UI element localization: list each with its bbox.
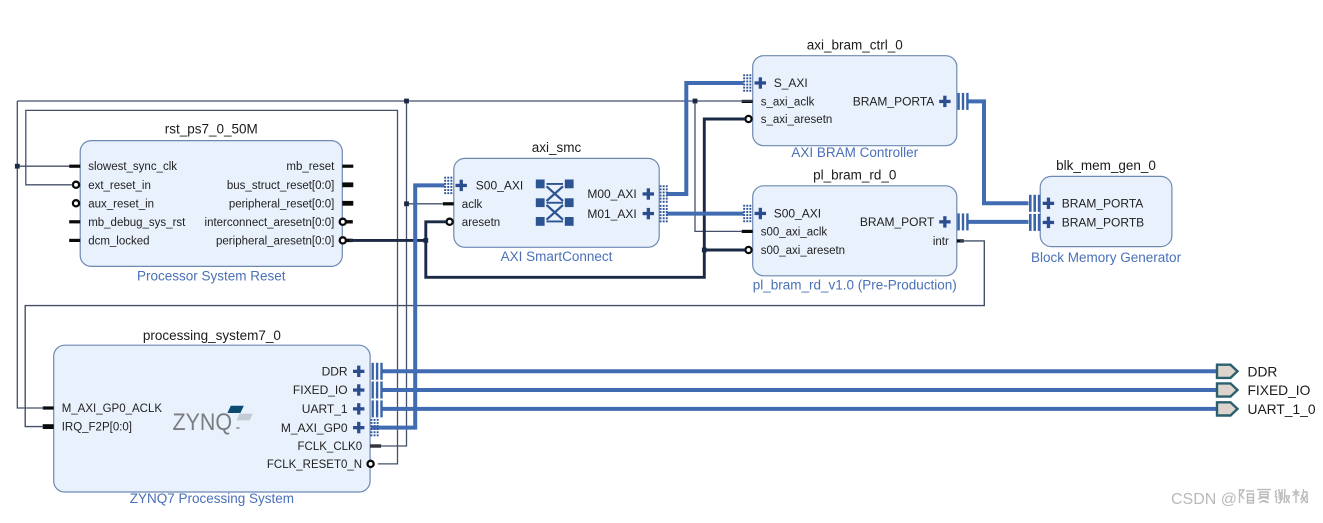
svg-text:AXI SmartConnect: AXI SmartConnect: [501, 249, 613, 264]
svg-text:rst_ps7_0_50M: rst_ps7_0_50M: [165, 122, 258, 137]
block pl_bram_rd_0 (pl_bram_rd_v1.0): [742, 168, 964, 293]
svg-text:peripheral_reset[0:0]: peripheral_reset[0:0]: [229, 198, 334, 210]
svg-text:ext_reset_in: ext_reset_in: [88, 180, 151, 192]
wire net FCLK_CLK0 (clock): [17, 101, 752, 446]
svg-text:s00_axi_aclk: s00_axi_aclk: [761, 226, 828, 238]
svg-text:aresetn: aresetn: [462, 217, 500, 229]
svg-text:BRAM_PORTB: BRAM_PORTB: [1062, 216, 1144, 230]
block rst_ps7_0_50M (Processor System Reset): [69, 122, 353, 284]
svg-text:mb_reset: mb_reset: [286, 161, 335, 173]
svg-text:s_axi_aresetn: s_axi_aresetn: [761, 114, 833, 126]
junction FCLK_CLK0 slowest_sync_clk branch: [15, 164, 20, 169]
svg-text:aux_reset_in: aux_reset_in: [88, 198, 154, 210]
svg-text:S_AXI: S_AXI: [774, 76, 808, 90]
external port FIXED_IO: [1217, 383, 1311, 398]
axi_smc crossbar switch icon: [536, 180, 574, 226]
svg-text:axi_smc: axi_smc: [532, 140, 582, 155]
connector M01_AXI dotted: [660, 205, 668, 222]
wire UART_1 to external port: [382, 407, 1217, 411]
junction FCLK_CLK0 aclk branch: [404, 201, 409, 206]
svg-text:intr: intr: [933, 236, 949, 248]
connector BRAM_PORT bars (pl_bram_rd): [957, 213, 968, 230]
wire BRAM_PORTA to blk_mem BRAM_PORTA: [969, 101, 1029, 203]
svg-text:M00_AXI: M00_AXI: [587, 187, 636, 201]
svg-text:axi_bram_ctrl_0: axi_bram_ctrl_0: [807, 38, 903, 53]
connector M_AXI_GP0 dotted (ps7): [371, 419, 379, 436]
svg-text:ZYNQ7 Processing System: ZYNQ7 Processing System: [130, 491, 294, 506]
svg-text:aclk: aclk: [462, 199, 483, 211]
wire net intr to IRQ_F2P: [25, 241, 984, 427]
svg-text:BRAM_PORT: BRAM_PORT: [860, 215, 935, 229]
svg-text:pl_bram_rd_v1.0 (Pre-Productio: pl_bram_rd_v1.0 (Pre-Production): [753, 278, 957, 293]
wire M00_AXI to S_AXI (AXI): [667, 83, 744, 194]
svg-text:AXI BRAM Controller: AXI BRAM Controller: [791, 145, 918, 160]
svg-text:UART_1_0: UART_1_0: [1248, 402, 1316, 417]
svg-text:FCLK_RESET0_N: FCLK_RESET0_N: [267, 459, 362, 471]
svg-text:blk_mem_gen_0: blk_mem_gen_0: [1056, 158, 1156, 173]
svg-text:mb_debug_sys_rst: mb_debug_sys_rst: [88, 217, 186, 229]
connector FIXED_IO bars: [372, 382, 383, 399]
junction FCLK_CLK0 s_axi_aclk branch: [693, 99, 698, 104]
wire M_AXI_GP0 to S00_AXI (AXI): [371, 185, 445, 427]
connector DDR bars: [372, 363, 383, 380]
wire FIXED_IO to external port: [382, 388, 1217, 392]
watermark CSDN: [1171, 489, 1308, 508]
svg-text:M01_AXI: M01_AXI: [587, 207, 636, 221]
connector S_AXI dotted (bram ctrl): [743, 74, 751, 91]
svg-text:slowest_sync_clk: slowest_sync_clk: [88, 161, 177, 173]
svg-text:IRQ_F2P[0:0]: IRQ_F2P[0:0]: [62, 422, 132, 434]
svg-text:processing_system7_0: processing_system7_0: [143, 328, 281, 343]
svg-text:Processor System Reset: Processor System Reset: [137, 268, 286, 283]
junction peripheral_aresetn fan-out: [423, 238, 428, 243]
svg-text:peripheral_aresetn[0:0]: peripheral_aresetn[0:0]: [216, 235, 334, 247]
svg-text:CSDN @: CSDN @: [1171, 491, 1237, 508]
svg-text:S00_AXI: S00_AXI: [774, 207, 821, 221]
block processing_system7_0 (ZYNQ7 Processing System): [43, 328, 381, 506]
connector S00_AXI dotted (axi_smc): [444, 177, 452, 194]
svg-text:bus_struct_reset[0:0]: bus_struct_reset[0:0]: [227, 180, 334, 192]
external port UART_1_0: [1217, 402, 1316, 417]
svg-text:ZYNQ: ZYNQ: [173, 409, 233, 436]
svg-text:DDR: DDR: [1248, 364, 1278, 379]
svg-text:UART_1: UART_1: [302, 402, 348, 416]
connector blk_mem BRAM_PORTA bars: [1029, 195, 1040, 212]
svg-text:s_axi_aclk: s_axi_aclk: [761, 96, 815, 108]
svg-text:M_AXI_GP0_ACLK: M_AXI_GP0_ACLK: [62, 403, 163, 415]
svg-text:S00_AXI: S00_AXI: [476, 179, 523, 193]
connector S00_AXI dotted (pl_bram_rd): [743, 205, 751, 222]
svg-text:dcm_locked: dcm_locked: [88, 235, 149, 247]
svg-text:FIXED_IO: FIXED_IO: [1248, 383, 1311, 398]
svg-text:s00_axi_aresetn: s00_axi_aresetn: [761, 245, 845, 257]
svg-text:Block Memory Generator: Block Memory Generator: [1031, 250, 1182, 265]
connector blk_mem BRAM_PORTB bars: [1029, 214, 1040, 231]
external port DDR: [1217, 364, 1277, 379]
connector M00_AXI dotted: [660, 185, 668, 202]
connector BRAM_PORTA bars (ctrl): [957, 93, 968, 110]
block axi_bram_ctrl_0 (AXI BRAM Controller): [742, 38, 957, 161]
block blk_mem_gen_0 (Block Memory Generator): [1031, 158, 1182, 265]
block U axi_smc (AXI SmartConnect): [443, 140, 659, 264]
svg-text:FCLK_CLK0: FCLK_CLK0: [298, 441, 363, 453]
connector UART_1 bars: [372, 400, 383, 417]
wire BRAM_PORT to blk_mem BRAM_PORTB: [969, 220, 1029, 224]
svg-text:BRAM_PORTA: BRAM_PORTA: [853, 95, 935, 109]
wire net FCLK_RESET0_N: [26, 110, 398, 464]
ZYNQ logo: [173, 406, 253, 436]
wire net peripheral_aresetn (bus): [350, 119, 746, 277]
wire M01_AXI to S00_AXI (AXI): [667, 212, 744, 216]
junction FCLK_CLK0 at top: [404, 99, 409, 104]
svg-text:DDR: DDR: [322, 365, 348, 379]
wire DDR to external port: [382, 369, 1217, 373]
svg-text:FIXED_IO: FIXED_IO: [293, 383, 348, 397]
svg-text:M_AXI_GP0: M_AXI_GP0: [281, 421, 348, 435]
svg-text:pl_bram_rd_0: pl_bram_rd_0: [813, 168, 896, 183]
svg-text:BRAM_PORTA: BRAM_PORTA: [1062, 197, 1144, 211]
svg-text:interconnect_aresetn[0:0]: interconnect_aresetn[0:0]: [205, 217, 335, 229]
junction peripheral_aresetn s00 branch: [702, 248, 707, 253]
